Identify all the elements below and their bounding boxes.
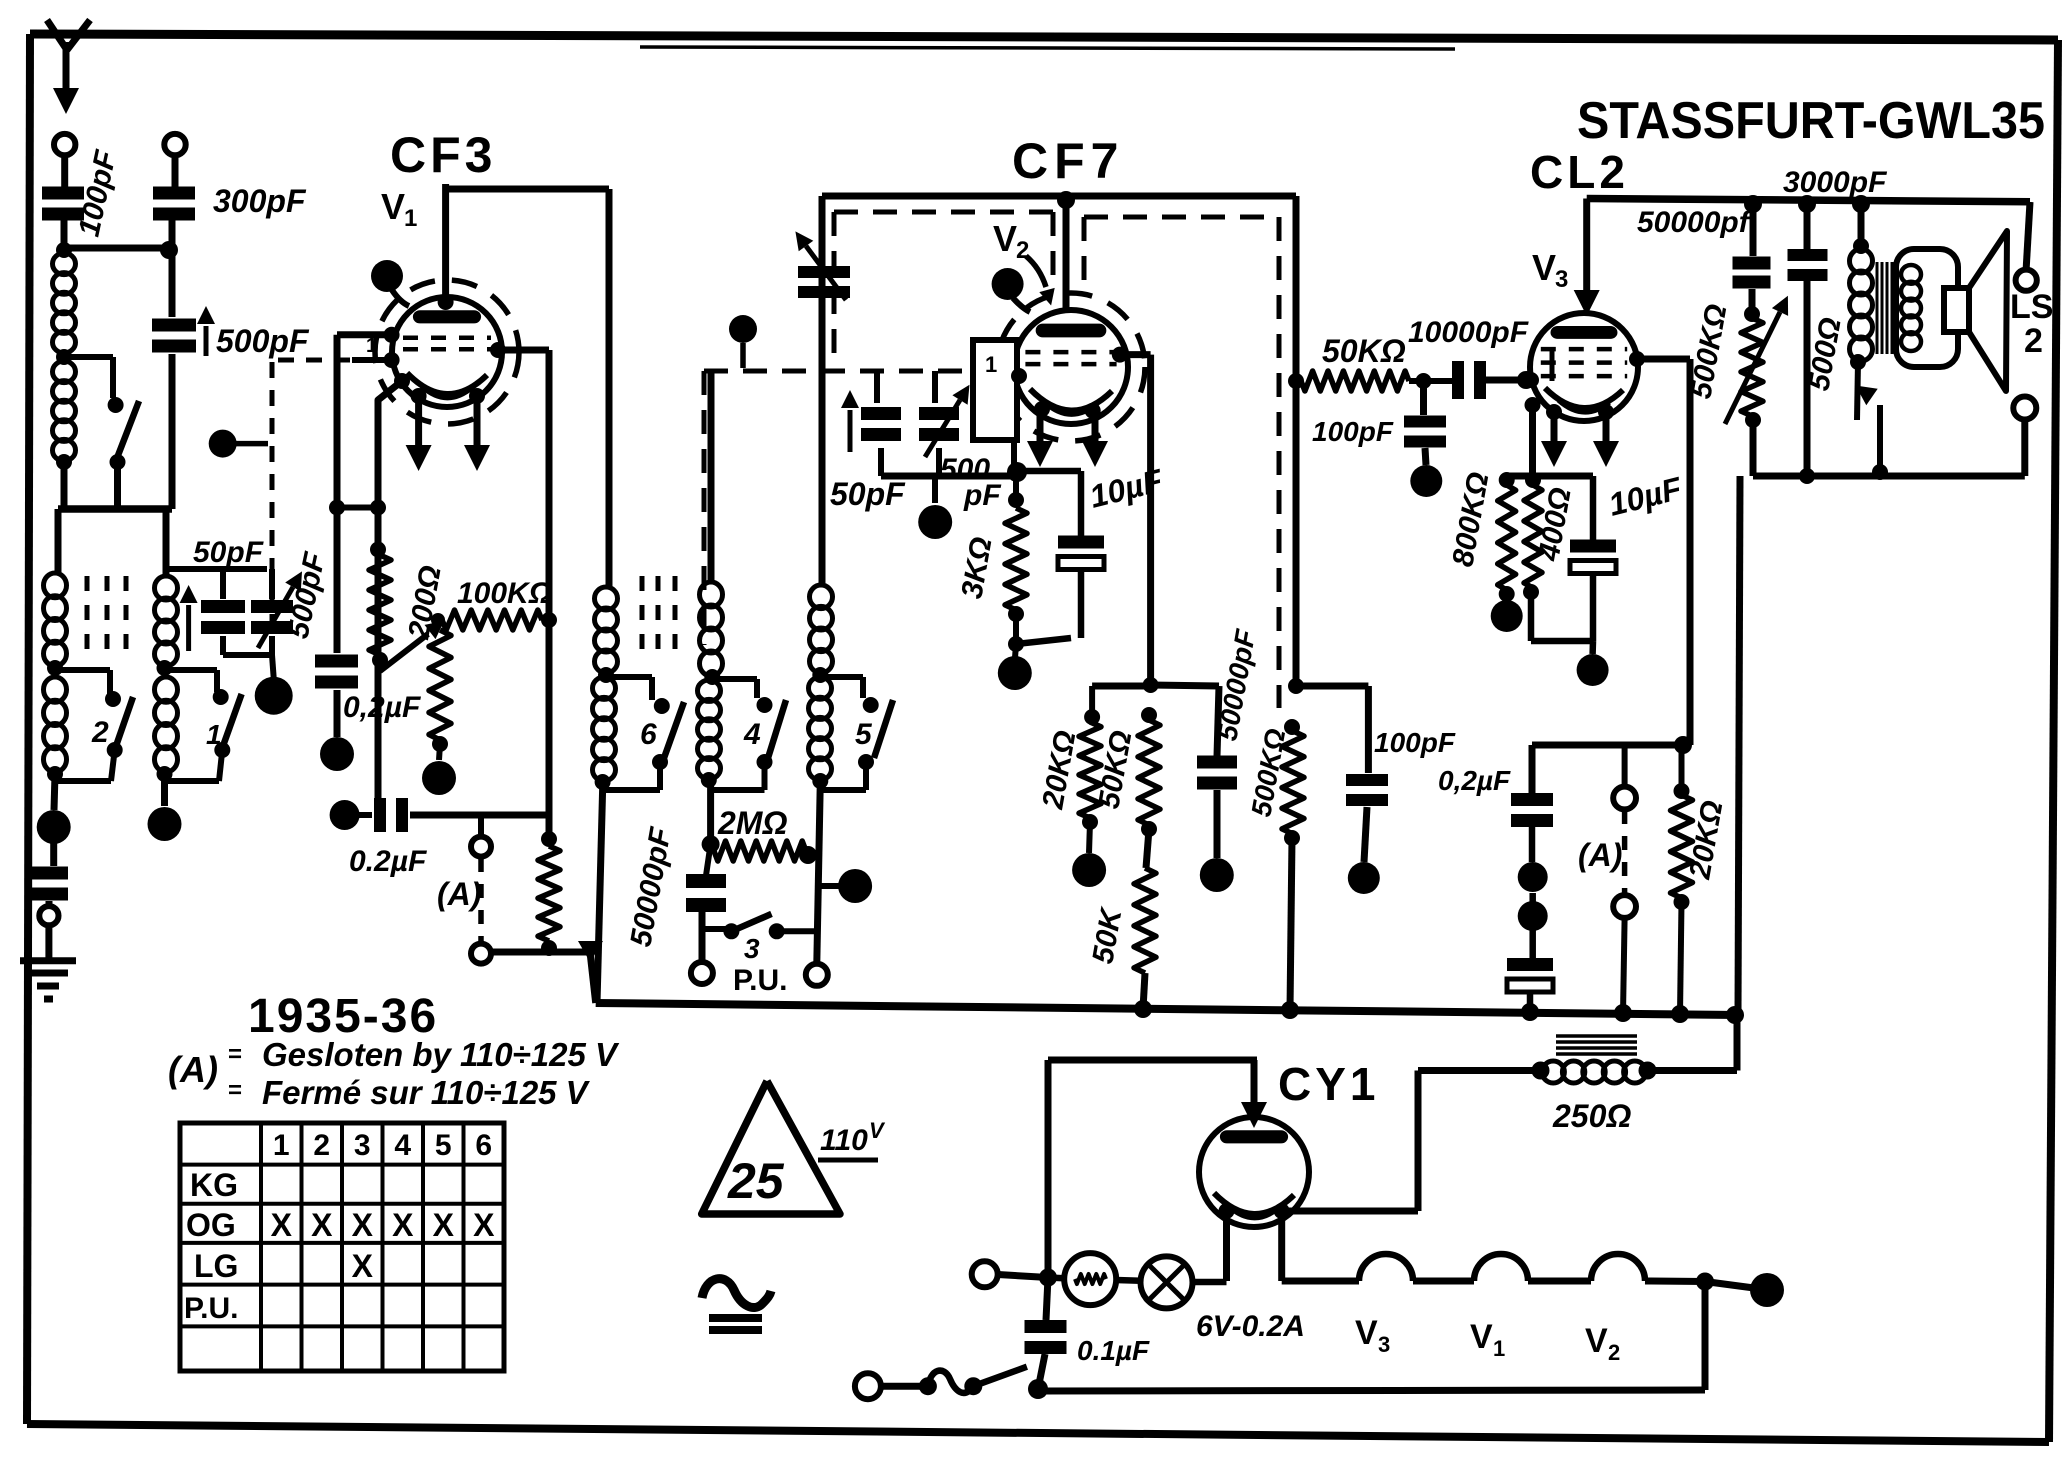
svg-text:1: 1 xyxy=(366,335,377,357)
svg-text:V: V xyxy=(381,186,405,227)
svg-text:V: V xyxy=(1355,1314,1378,1352)
svg-text:1: 1 xyxy=(273,1129,290,1162)
svg-text:0,2µF: 0,2µF xyxy=(343,691,421,724)
svg-text:CL2: CL2 xyxy=(1530,146,1629,198)
svg-text:250Ω: 250Ω xyxy=(1552,1098,1631,1134)
svg-text:=: = xyxy=(228,1077,242,1104)
svg-text:0,2µF: 0,2µF xyxy=(1438,765,1511,796)
svg-text:=: = xyxy=(228,1041,242,1068)
svg-text:3: 3 xyxy=(1378,1332,1390,1357)
svg-text:4: 4 xyxy=(394,1129,411,1162)
svg-text:1: 1 xyxy=(985,352,997,377)
svg-text:(A): (A) xyxy=(1578,837,1622,873)
svg-text:2: 2 xyxy=(1608,1340,1620,1365)
svg-text:X: X xyxy=(352,1248,374,1284)
svg-text:X: X xyxy=(311,1207,333,1243)
svg-text:X: X xyxy=(473,1207,495,1243)
svg-text:X: X xyxy=(433,1207,455,1243)
svg-text:X: X xyxy=(392,1207,414,1243)
svg-text:CF3: CF3 xyxy=(390,127,496,183)
svg-text:CF7: CF7 xyxy=(1012,133,1124,189)
svg-text:1: 1 xyxy=(1493,1336,1505,1361)
svg-text:50pF: 50pF xyxy=(830,476,906,512)
svg-text:CY1: CY1 xyxy=(1278,1058,1379,1110)
svg-text:100pF: 100pF xyxy=(1374,727,1456,758)
svg-text:2MΩ: 2MΩ xyxy=(717,805,787,841)
svg-text:4: 4 xyxy=(743,718,761,751)
svg-text:OG: OG xyxy=(186,1207,236,1243)
svg-text:V: V xyxy=(869,1118,886,1143)
svg-text:3: 3 xyxy=(744,933,760,964)
svg-text:6: 6 xyxy=(640,718,657,751)
svg-text:2: 2 xyxy=(2024,322,2043,360)
svg-text:2: 2 xyxy=(313,1129,330,1162)
svg-text:0.1µF: 0.1µF xyxy=(1077,1335,1150,1366)
svg-text:KG: KG xyxy=(190,1167,238,1203)
svg-text:(A): (A) xyxy=(437,876,481,912)
svg-text:0.2µF: 0.2µF xyxy=(349,845,427,878)
svg-text:V: V xyxy=(1585,1322,1608,1360)
svg-text:Gesloten by 110÷125 V: Gesloten by 110÷125 V xyxy=(262,1036,620,1073)
svg-text:LG: LG xyxy=(194,1248,238,1284)
svg-text:X: X xyxy=(271,1207,293,1243)
svg-text:2: 2 xyxy=(91,716,109,749)
svg-text:(A): (A) xyxy=(168,1049,218,1090)
svg-text:V: V xyxy=(1470,1318,1493,1356)
svg-text:V: V xyxy=(1532,247,1556,288)
svg-text:6V-0.2A: 6V-0.2A xyxy=(1196,1310,1305,1343)
svg-text:X: X xyxy=(352,1207,374,1243)
svg-text:300pF: 300pF xyxy=(213,183,307,219)
svg-text:STASSFURT-GWL35: STASSFURT-GWL35 xyxy=(1577,92,2045,150)
svg-text:25: 25 xyxy=(727,1153,785,1209)
svg-text:1: 1 xyxy=(206,719,222,750)
svg-text:Fermé sur 110÷125 V: Fermé sur 110÷125 V xyxy=(262,1074,591,1111)
svg-text:3000pF: 3000pF xyxy=(1783,166,1887,199)
svg-text:3: 3 xyxy=(354,1129,371,1162)
svg-text:10000pF: 10000pF xyxy=(1408,316,1529,349)
svg-text:P.U.: P.U. xyxy=(184,1292,238,1325)
svg-text:6: 6 xyxy=(475,1129,492,1162)
svg-text:100KΩ: 100KΩ xyxy=(457,577,552,610)
svg-text:3: 3 xyxy=(1555,266,1568,293)
svg-text:50pF: 50pF xyxy=(193,536,264,569)
svg-text:50000pf: 50000pf xyxy=(1637,206,1752,239)
svg-text:pF: pF xyxy=(963,479,1001,512)
svg-text:110: 110 xyxy=(820,1124,868,1157)
svg-text:500pF: 500pF xyxy=(216,323,310,359)
svg-text:1: 1 xyxy=(404,205,417,232)
svg-text:5: 5 xyxy=(435,1129,452,1162)
svg-text:100pF: 100pF xyxy=(1312,416,1394,447)
svg-text:LS: LS xyxy=(2010,288,2053,326)
svg-text:V: V xyxy=(993,218,1017,259)
svg-text:50KΩ: 50KΩ xyxy=(1322,333,1406,369)
svg-text:P.U.: P.U. xyxy=(733,964,787,997)
svg-text:5: 5 xyxy=(855,718,873,751)
